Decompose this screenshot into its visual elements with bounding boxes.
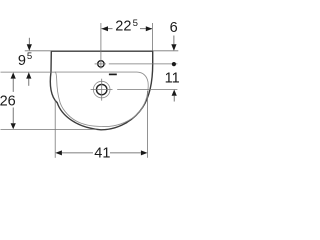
overflow slot dash [109, 73, 117, 75]
washbasin outer outline [50, 51, 152, 130]
dim 6 top extension line [153, 50, 178, 52]
tap hole vertical centerline / 22.5 extension [100, 23, 102, 69]
dim 22.5 left arrow [101, 26, 108, 31]
dim 6 dot terminator [172, 62, 176, 66]
dim 9.5 lower arrow stub [28, 79, 30, 86]
tap hole [98, 61, 104, 67]
drain centerline extension right / 11 extension [117, 89, 177, 91]
dim 41 right extension line [147, 91, 149, 158]
drain vertical centerline [101, 79, 103, 101]
dim 26 bottom extension line [1, 128, 97, 130]
dim 9.5 upper arrow stub [28, 38, 30, 45]
dim 9.5 lower arrow [26, 72, 31, 78]
tap hole horizontal centerline right / 6 extension [109, 63, 178, 65]
svg-text:11: 11 [165, 71, 180, 87]
dim 41 left extension line [54, 101, 56, 158]
dim 41 line left [62, 152, 93, 154]
dim 41 left arrow [55, 150, 62, 155]
svg-text:6: 6 [170, 20, 178, 36]
dim 26 lower arrow [11, 123, 16, 129]
svg-text:22: 22 [115, 19, 131, 35]
dim 6 arrow stub [173, 36, 175, 45]
dim 26 upper arrow [11, 72, 16, 78]
dim 41 right arrow [141, 150, 148, 155]
svg-text:5: 5 [27, 51, 32, 62]
drain main circle [97, 84, 107, 94]
tap hole horizontal centerline left [95, 63, 106, 65]
drain horizontal centerline [91, 89, 113, 91]
dim 22.5 right arrow [146, 26, 153, 31]
dim 6 arrow [171, 44, 176, 51]
dim 9.5 upper arrow [27, 44, 32, 51]
washbasin inner bowl [55, 72, 148, 126]
dim 22.5 right extension line [151, 23, 153, 51]
rear extension line y=72.15 [1, 71, 56, 73]
svg-text:26: 26 [0, 94, 16, 110]
dim 9.5 top extension line [25, 50, 51, 52]
dim 41 line right [110, 152, 141, 154]
drain outer circle [93, 81, 110, 98]
svg-text:41: 41 [94, 146, 110, 162]
svg-text:9: 9 [18, 53, 26, 69]
dim 11 arrow stub [173, 96, 175, 102]
svg-text:5: 5 [133, 18, 138, 29]
dim 26 line upper [12, 79, 14, 92]
dim 22.5 line [101, 28, 112, 30]
dim 26 line lower [12, 108, 14, 124]
dim 11 arrow [172, 90, 177, 96]
